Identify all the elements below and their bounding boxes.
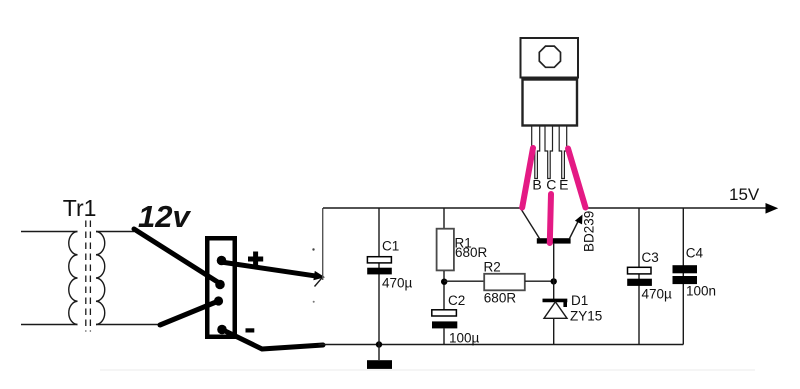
svg-text:C1: C1 (382, 239, 399, 254)
svg-text:BD239: BD239 (582, 211, 597, 252)
svg-text:B: B (532, 177, 541, 193)
wire zener to bottom rail (553, 318, 555, 344)
arrowhead emitter (575, 215, 583, 225)
wire C2 to bottom rail (443, 328, 445, 344)
wire primary bottom lead (21, 324, 78, 326)
svg-text:C: C (546, 177, 556, 193)
svg-text:C2: C2 (448, 293, 465, 308)
capacitor C4 plate top (673, 265, 698, 273)
transistor U1 package tab (521, 38, 579, 78)
svg-text:Tr1: Tr1 (63, 195, 97, 221)
wire thick plus output (221, 262, 317, 276)
pink lead E (568, 149, 586, 208)
wire secondary top lead (96, 231, 134, 233)
svg-text:C4: C4 (686, 246, 704, 261)
wire top rail right section (583, 207, 766, 209)
transistor base bar (537, 238, 571, 243)
svg-text:680R: 680R (455, 245, 488, 260)
wire node to R2 (444, 280, 484, 282)
transistor U1 package hole (539, 46, 560, 67)
capacitor C1 plate bottom (367, 268, 392, 275)
svg-text:470µ: 470µ (382, 276, 413, 291)
wire C4 vertical (682, 208, 684, 345)
wire R2 to base node (525, 280, 554, 282)
capacitor C1 plate top (367, 257, 391, 263)
diode D1 zener cathode bar (543, 300, 568, 307)
speck below arrow (313, 301, 315, 303)
transformer core line 2 (89, 221, 91, 332)
connector terminal block (207, 238, 235, 337)
wire secondary bottom lead (96, 324, 160, 326)
label minus (246, 328, 255, 332)
terminal pin 4 (217, 325, 227, 335)
svg-text:100µ: 100µ (449, 331, 480, 346)
wire C1 vertical (378, 208, 380, 345)
svg-text:ZY15: ZY15 (570, 308, 602, 323)
svg-text:12v: 12v (138, 199, 191, 234)
wire input corner vertical (322, 208, 324, 280)
node ground junction (376, 341, 382, 347)
wire primary top lead (21, 231, 78, 233)
transistor U1 package body (523, 80, 578, 126)
arrowhead 15V output (766, 203, 779, 214)
transformer core line 1 (85, 221, 87, 332)
capacitor C2 plate bottom (432, 321, 457, 328)
svg-text:D1: D1 (571, 293, 588, 308)
terminal pin 3 (214, 296, 223, 305)
svg-text:100n: 100n (686, 284, 716, 299)
wire thick minus output (222, 330, 323, 350)
svg-text:470µ: 470µ (642, 287, 673, 302)
wire thick secondary top to terminal 2 (134, 229, 220, 284)
transistor U1 package leg C (545, 126, 553, 179)
pink lead B (522, 148, 533, 208)
diode D1 triangle (544, 302, 567, 318)
node base zener junction (551, 278, 557, 284)
transistor U1 package leg E (559, 126, 567, 179)
resistor R2 (484, 274, 525, 291)
wire thick secondary bottom to terminal 3 (160, 301, 219, 325)
pink lead C (550, 194, 551, 243)
transistor U1 package leg B (532, 126, 540, 179)
svg-text:15V: 15V (729, 185, 760, 204)
wire C3 vertical (638, 208, 640, 345)
capacitor C4 plate bottom (673, 276, 698, 284)
transistor emitter line (570, 218, 581, 239)
capacitor C3 plate bottom (627, 279, 652, 286)
wire R1 to node (443, 271, 445, 310)
faint ghost line (100, 369, 755, 371)
arrow overshoot slash (315, 278, 323, 287)
wire junction to ground (378, 345, 380, 361)
terminal pin 2 (215, 280, 225, 290)
transformer secondary winding (96, 232, 105, 325)
svg-text:R2: R2 (484, 259, 501, 274)
terminal pin 1 (217, 256, 227, 266)
wire base (553, 244, 555, 299)
transistor collector line (521, 208, 540, 238)
capacitor C2 plate top (432, 310, 457, 316)
node R1 R2 C2 junction (441, 279, 447, 285)
svg-text:680R: 680R (484, 291, 517, 306)
wire R1 drop (443, 208, 445, 229)
svg-text:C3: C3 (642, 250, 659, 265)
transformer primary winding (69, 232, 78, 325)
svg-text:E: E (559, 177, 568, 193)
resistor R1 (437, 229, 454, 271)
capacitor C3 plate top (628, 267, 652, 274)
ground (367, 360, 392, 369)
wire top rail left section (323, 207, 521, 209)
wire bottom rail (319, 344, 684, 346)
arrowhead plus wire (313, 271, 325, 280)
label plus (248, 252, 263, 267)
speck above arrow (312, 248, 314, 250)
